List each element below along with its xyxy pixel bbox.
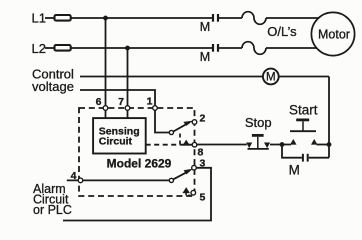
svg-text:O/L’s: O/L’s <box>267 24 297 39</box>
svg-text:1: 1 <box>147 96 153 108</box>
contact arrow to terminal 5 <box>183 187 190 193</box>
wire L1 drop to terminal 6 <box>105 18 107 108</box>
wire terminal 4 to switch 2 pivot <box>67 179 170 181</box>
contact M holding <box>302 154 304 162</box>
contact M line2 <box>212 44 214 52</box>
wire contact to OL1 <box>219 17 242 19</box>
wire start to right rail <box>317 144 330 146</box>
node junction start-left <box>280 142 285 147</box>
wire OL2 to motor <box>266 47 317 49</box>
terminal 4 <box>78 178 83 183</box>
switch SW2 blade barb <box>184 169 193 174</box>
wire terminal 7 to sensing box <box>127 108 129 118</box>
fuse F1 <box>55 15 71 21</box>
wire terminal 3 loop to PLC <box>63 168 211 221</box>
switch SW1 pivot <box>169 130 173 134</box>
dashed wire sensing box to terminal 8 <box>146 144 192 146</box>
pushbutton Stop <box>245 115 272 149</box>
wire L2 lead <box>45 47 54 49</box>
sensing circuit box <box>93 118 146 153</box>
switch SW1 blade <box>173 123 189 132</box>
terminal 1 <box>153 106 158 111</box>
svg-text:4: 4 <box>71 170 77 182</box>
node junction L1 <box>103 16 108 21</box>
wire terminal 1 to switch 1 pivot <box>155 108 169 133</box>
node junction L2 <box>125 46 130 51</box>
dashed enclosure Model 2629 <box>79 108 195 196</box>
svg-text:M: M <box>200 50 210 64</box>
terminal 8 <box>192 142 197 147</box>
wire L1 lead <box>45 17 54 19</box>
motor M1 <box>311 12 354 55</box>
contact arrow to terminal 8 <box>183 140 190 146</box>
terminal 5 <box>191 190 196 195</box>
wire L2 to contact M <box>71 47 212 49</box>
terminal 3 <box>192 165 197 170</box>
svg-text:Start: Start <box>289 103 318 118</box>
svg-text:5: 5 <box>200 192 206 204</box>
wire terminal 8 to stop <box>197 144 247 146</box>
wire right rail <box>328 77 330 158</box>
overload heater OL2 <box>242 42 266 55</box>
svg-text:M: M <box>289 162 300 177</box>
svg-text:or PLC: or PLC <box>33 203 72 217</box>
wire OL1 to motor <box>266 17 319 19</box>
dashed link arrow to terminal 5 <box>186 193 191 196</box>
terminal 2 <box>192 120 197 125</box>
svg-text:Stop: Stop <box>245 115 272 130</box>
wire control lower line to terminal 1 <box>80 90 155 108</box>
contact M line1 <box>212 14 214 22</box>
svg-text:voltage: voltage <box>32 79 74 94</box>
wire control top line <box>80 76 263 78</box>
linkage dashes SW1 <box>179 134 181 145</box>
overload heater OL1 <box>242 12 266 25</box>
switch SW2 blade <box>173 171 188 179</box>
svg-text:Model 2629: Model 2629 <box>107 157 172 171</box>
wire L1 to contact M <box>71 17 212 19</box>
svg-text:M: M <box>266 72 276 84</box>
wire coil to right rail <box>279 76 329 78</box>
wire contact to OL2 <box>219 47 242 49</box>
svg-text:7: 7 <box>118 96 124 108</box>
fuse F2 <box>55 45 71 51</box>
terminal 7 <box>125 106 130 111</box>
wire L2 drop to terminal 7 <box>127 48 129 108</box>
wire M holding branch <box>282 145 302 158</box>
coil M <box>263 69 279 85</box>
svg-text:Circuit: Circuit <box>99 136 133 148</box>
node junction start-right <box>327 142 332 147</box>
terminal 6 <box>103 106 108 111</box>
svg-text:6: 6 <box>96 96 102 108</box>
svg-text:2: 2 <box>200 113 206 125</box>
wire stop to junction <box>270 144 291 146</box>
svg-text:L1: L1 <box>32 11 46 26</box>
svg-text:L2: L2 <box>32 41 46 56</box>
switch SW2 pivot <box>169 178 173 182</box>
pushbutton Start <box>289 103 318 145</box>
wire terminal 6 to sensing box <box>105 108 107 118</box>
wire M contact to rail <box>309 157 329 159</box>
svg-text:Motor: Motor <box>318 27 350 41</box>
switch SW1 blade barb <box>184 121 193 126</box>
svg-text:M: M <box>200 20 210 34</box>
